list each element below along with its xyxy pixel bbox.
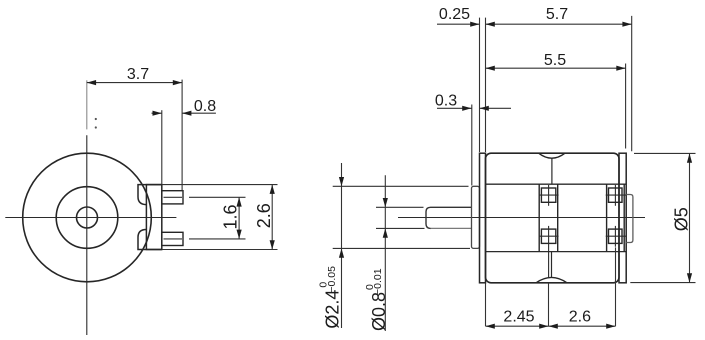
dim 2.6 line [271,185,273,250]
top joint arc [539,153,565,158]
dim 1.6 line [238,197,240,239]
pin lug top-right [609,188,623,202]
centerline dots [95,118,97,120]
dim O0.8 line [384,175,386,331]
extension line boss front face [471,105,473,186]
motor outer circle [23,153,152,282]
svg-text:1.6: 1.6 [221,204,241,229]
extension line body bottom right [630,282,695,284]
arrow 5.7 left [486,22,495,27]
svg-text:2.45: 2.45 [503,309,534,326]
arrow O2.4 top points down [339,177,344,186]
arrow 0.8 left points right [153,111,162,116]
cross v bottom-right lug [614,226,616,247]
arrow 0.8 right points left [182,111,191,116]
arrow 2.6 right [606,324,615,329]
extension line O2.4 bottom [333,247,470,249]
rear plate [619,153,626,283]
extension line body front face bottom [485,283,487,326]
section split line top [551,158,553,184]
pin1 centerline [164,196,183,198]
extension line body top right [634,152,696,154]
extension line pin1 center [189,196,246,198]
dim O2.4 line [341,163,343,328]
pin lug top-left [541,188,555,202]
svg-text:Ø0.8: Ø0.8 [369,292,389,331]
shaft hole inner circle [77,207,98,228]
cross v top-right lug [614,185,616,206]
arrow 0.3 points left [480,106,489,111]
arrow O5 bottom [687,273,692,282]
label O5 rotated [671,207,691,231]
cross h top-left lug [539,194,559,196]
arrow 5.7 right [622,22,631,27]
svg-text:2.6: 2.6 [569,309,591,326]
extension line block bottom edge [162,249,278,251]
svg-text:0.3: 0.3 [435,92,457,109]
dim 5.7 line [486,23,632,25]
pin lug bottom-left [541,229,555,243]
bottom joint arc [536,277,567,282]
dim 0.3 tail right [480,107,512,109]
arrow 2.45 left [486,324,495,329]
extension line right pin center bottom [615,247,617,326]
arrow O2.4 bottom points up [339,248,344,257]
pin lug bottom-right [609,229,623,243]
left terminal strip left line [538,184,540,251]
dim 0.8 left tail [152,112,162,114]
extension line O0.8 top [376,206,424,208]
label 1.6 rotated [221,204,241,229]
arrow 3.7 right [173,80,182,85]
svg-text:5.5: 5.5 [544,52,566,69]
shaft O0.8 [426,207,472,228]
cross v top-left lug [548,185,550,206]
vertical centerline main [86,135,88,335]
rear bearing boss [626,195,633,243]
section split line bottom [551,252,553,278]
band top line [486,183,626,185]
arrow O5 top [687,153,692,162]
dim 5.5 line [486,67,626,69]
horizontal centerline [5,217,176,219]
svg-text:−0.05: −0.05 [326,266,338,293]
front bearing boss O2.4 [472,186,480,248]
pin2 centerline [164,238,183,240]
arrow 5.5 right [616,66,625,71]
left terminal strip right line [557,184,559,251]
right terminal strip left line [606,184,608,251]
arrow 1.6 top [237,197,242,206]
svg-text:5.7: 5.7 [546,6,568,23]
arrow 0.25 points right [470,22,479,27]
right terminal strip right line [623,184,625,251]
dim 0.3 leader left [437,107,472,109]
svg-text:Ø5: Ø5 [671,207,691,231]
dim line 2.45 and 2.6 [486,325,616,327]
extension line rear boss [631,16,633,151]
terminal pin upper [162,191,183,204]
extension line flange rear face [485,18,487,152]
svg-text:Ø2.4: Ø2.4 [323,290,343,329]
label 2.6 rotated [254,203,274,228]
svg-text:2.6: 2.6 [254,203,274,228]
front flange [480,153,486,283]
cross v bottom-left lug extended to arc [548,226,550,278]
extension line rear plate [625,64,627,149]
horizontal centerline side view [398,217,645,219]
dim O5 line [689,153,691,282]
rotor middle circle [56,187,118,249]
terminal block top tab [138,185,162,205]
arrow 2.6 bottom [270,240,275,249]
arrow O0.8 top points down [383,198,388,207]
svg-text:0.8: 0.8 [194,98,216,115]
arrow 3.7 left [87,80,96,85]
terminal block body [146,185,161,250]
cross h bottom-left lug [539,235,559,237]
arrow middle points left [549,324,558,329]
arrow 2.6 top [270,185,275,194]
label O0.8 with tolerance rotated [364,268,389,331]
extension line block top edge [162,184,278,186]
arrow middle points right [539,324,548,329]
arrow 5.5 left [486,66,495,71]
dim 3.7 line [87,82,182,84]
extension line O0.8 bottom [376,227,425,229]
extension line left pin center bottom [548,283,550,326]
terminal block bottom tab [138,230,162,250]
svg-text:3.7: 3.7 [127,66,149,83]
extension line flange front face [479,18,481,152]
band bottom line [486,251,626,253]
motor body [486,153,620,283]
arrow 0.3 points right [462,106,471,111]
arrow 1.6 bottom [237,230,242,239]
terminal pin lower [162,232,183,245]
svg-text:0.25: 0.25 [439,6,470,23]
vertical centerline upper gray segment [86,80,88,129]
dim 0.25 leader [437,23,480,25]
arrow O0.8 bottom points up [383,228,388,237]
cross h bottom-right lug [606,235,626,237]
extension line pin2 center [189,238,246,240]
svg-text:−0.01: −0.01 [372,268,384,295]
dim 0.8 right tail [182,112,216,114]
label O2.4 with tolerance rotated [318,266,343,329]
extension line O2.4 top [333,185,469,187]
extension line pin tip [181,80,183,191]
extension line block right [161,110,163,184]
cross h top-right lug [606,194,626,196]
